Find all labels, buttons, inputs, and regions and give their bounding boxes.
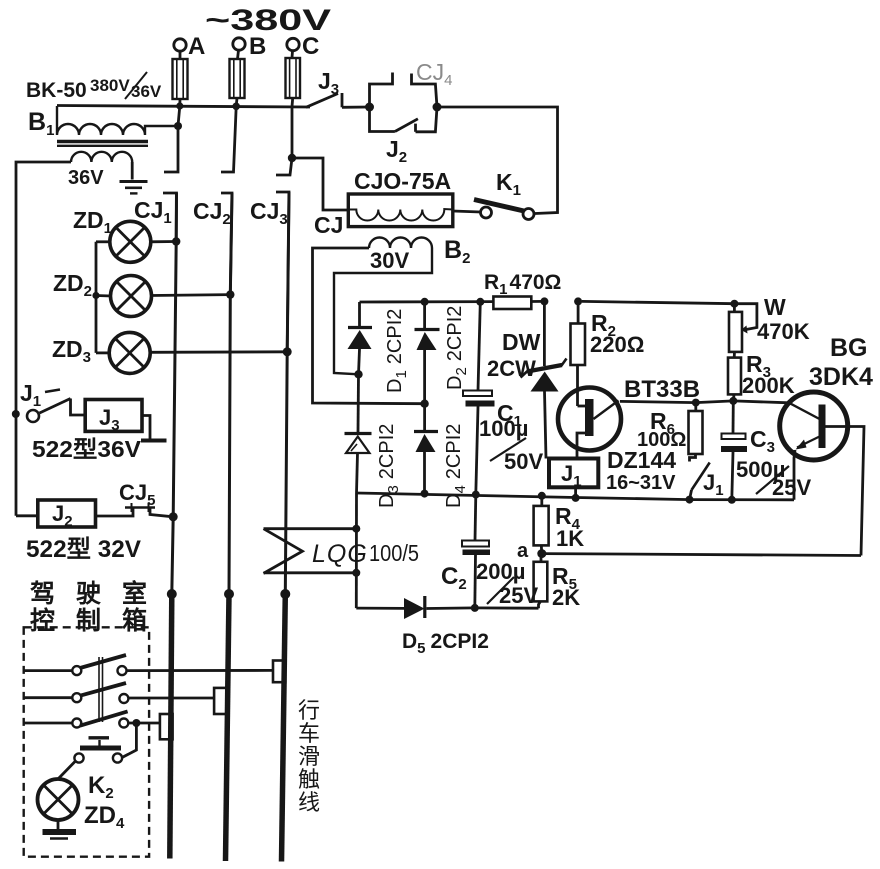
wire bus C <box>285 192 289 594</box>
relay coil J2 <box>16 500 141 563</box>
svg-text:控制箱: 控制箱 <box>30 606 147 635</box>
svg-text:CJ: CJ <box>314 212 343 238</box>
relay coil J1 <box>549 447 676 502</box>
diode D3 <box>345 374 372 493</box>
wire bridge bottom rail <box>357 493 795 500</box>
node a <box>537 549 546 558</box>
svg-text:驾驶室: 驾驶室 <box>30 579 147 608</box>
node bridge AC left <box>354 370 362 378</box>
switch linkage <box>99 657 103 722</box>
svg-text:50V: 50V <box>504 449 543 474</box>
svg-text:LQG: LQG <box>312 540 368 568</box>
node bus A blob <box>167 589 177 599</box>
contact J2 <box>370 107 438 166</box>
svg-text:522型36V: 522型36V <box>32 436 142 462</box>
node bridge AC right <box>420 400 428 408</box>
lamp ZD4 <box>38 779 126 832</box>
node row3 <box>132 719 140 727</box>
svg-text:25V: 25V <box>499 583 538 608</box>
contact CJ4 <box>370 59 453 107</box>
wire right node to K1 <box>437 107 558 214</box>
svg-text:W: W <box>764 294 786 320</box>
switch row 2 <box>24 683 214 703</box>
capacitor C1 <box>463 302 543 494</box>
ground <box>120 182 148 194</box>
svg-text:380V: 380V <box>90 76 130 95</box>
svg-text:1K: 1K <box>556 526 584 551</box>
svg-text:触: 触 <box>298 767 320 792</box>
node C1 top <box>476 298 484 306</box>
svg-text:16~31V: 16~31V <box>606 472 676 494</box>
diode D2 <box>415 302 440 404</box>
resistor R4 <box>534 492 585 554</box>
fuse C <box>286 58 301 107</box>
lamp ZD3 <box>52 332 287 373</box>
resistor R5 <box>534 554 581 610</box>
svg-text:R1470Ω: R1470Ω <box>484 271 561 298</box>
wire lamp common <box>95 242 98 353</box>
resistor R1 <box>484 271 561 309</box>
node CJ5-A <box>169 512 178 521</box>
contactor coil CJ <box>314 168 453 238</box>
terminal A <box>174 33 206 60</box>
contact CJ5 <box>96 480 174 517</box>
svg-text:BK-50: BK-50 <box>26 79 87 102</box>
resistor R3 <box>728 351 795 405</box>
slider contact B <box>214 688 227 714</box>
node bus C blob <box>280 589 290 599</box>
wire node a feedback <box>542 554 861 556</box>
node ZD1-A <box>172 237 180 245</box>
node ZD2 common <box>92 292 99 299</box>
switch J1 left <box>12 380 85 422</box>
svg-text:DW: DW <box>502 329 541 355</box>
contact CJ1 <box>134 126 178 242</box>
contact CJ3 <box>250 107 292 352</box>
node left of CJ4/J2 <box>365 103 374 112</box>
wire A phase upper <box>178 106 180 126</box>
svg-text:220Ω: 220Ω <box>590 332 644 357</box>
node D2 top <box>421 298 429 306</box>
wire bus B <box>229 193 232 594</box>
svg-text:470K: 470K <box>757 319 810 344</box>
relay coil J3 <box>32 400 167 463</box>
diode D4 <box>414 404 438 494</box>
svg-text:A: A <box>188 33 205 60</box>
switch row 3 <box>24 711 160 727</box>
diode D5 <box>356 596 538 657</box>
diode D1 <box>348 302 373 374</box>
current transformer LQG <box>264 493 420 608</box>
resistor R6 <box>637 399 703 462</box>
svg-text:36V: 36V <box>131 82 162 101</box>
svg-text:滑: 滑 <box>298 744 320 769</box>
node B-line <box>232 103 240 111</box>
svg-text:2CW: 2CW <box>487 356 536 381</box>
fuse A <box>173 59 188 106</box>
svg-text:36V: 36V <box>68 167 104 189</box>
svg-text:200µ: 200µ <box>476 559 525 584</box>
contact J1 <box>686 463 724 504</box>
svg-text:25V: 25V <box>772 475 811 500</box>
node ZD3-C <box>283 347 292 356</box>
node ZD2-B <box>226 290 234 298</box>
capacitor C3 <box>721 401 811 504</box>
wire C-phase to CJ coil <box>292 158 348 210</box>
wire bus A <box>172 193 177 594</box>
switch J3 <box>306 68 370 107</box>
slider contact A <box>160 714 173 739</box>
ground ZD4 <box>43 820 77 839</box>
pushbutton K2 <box>58 723 136 802</box>
terminal B <box>233 33 267 60</box>
zener DW <box>487 297 567 458</box>
svg-text:3DK4: 3DK4 <box>809 363 873 391</box>
svg-text:CJO-75A: CJO-75A <box>354 168 451 194</box>
node A-line <box>176 102 183 109</box>
lamp ZD1 <box>73 207 176 262</box>
wire B1 secondary right to ground <box>131 162 134 180</box>
svg-text:车: 车 <box>298 721 320 746</box>
contact CJ2 <box>193 106 236 294</box>
wire B1 secondary to left rail <box>16 162 71 516</box>
svg-text:C: C <box>302 33 319 60</box>
svg-text:200K: 200K <box>742 373 795 398</box>
fuse B <box>230 59 245 106</box>
transistor BG <box>780 334 873 556</box>
wire bridge top rail <box>360 300 494 303</box>
control box dashed border <box>24 627 149 856</box>
node C-phase branch <box>288 154 296 162</box>
label trolley line <box>298 698 320 815</box>
wire rail to W <box>582 301 734 303</box>
svg-text:B: B <box>249 33 266 60</box>
capacitor C2 <box>441 495 538 612</box>
svg-text:线: 线 <box>298 790 320 815</box>
svg-text:BT33B: BT33B <box>624 376 700 403</box>
terminal C <box>287 33 320 60</box>
svg-text:30V: 30V <box>370 248 409 273</box>
node D4 bottom <box>421 490 429 498</box>
wire main 380V line <box>57 106 310 108</box>
wire emitter line y402 <box>620 401 789 403</box>
wire B2 left lead to bridge <box>313 248 425 404</box>
switch K1 <box>453 169 534 220</box>
node C1 bottom <box>472 491 480 499</box>
slider contact C <box>273 661 285 683</box>
potentiometer W <box>729 294 810 352</box>
switch row 1 <box>24 655 273 675</box>
svg-text:2K: 2K <box>552 585 580 610</box>
svg-text:BG: BG <box>830 334 868 362</box>
node right of CJ4/J2 <box>433 103 442 112</box>
node bus B blob <box>224 589 234 599</box>
svg-text:522型 32V: 522型 32V <box>26 536 141 563</box>
resistor R2 <box>571 297 645 406</box>
svg-text:D52CPI2: D52CPI2 <box>402 630 489 657</box>
transistor BT33B <box>558 376 700 459</box>
svg-text:100/5: 100/5 <box>369 540 419 566</box>
transformer B1 <box>26 72 178 189</box>
lamp ZD2 <box>53 270 230 317</box>
node B1 primary to A-phase <box>174 122 182 130</box>
transformer B2 <box>334 236 470 374</box>
svg-text:行: 行 <box>298 698 320 723</box>
svg-text:100µ: 100µ <box>479 416 528 441</box>
svg-text:100Ω: 100Ω <box>637 429 686 451</box>
